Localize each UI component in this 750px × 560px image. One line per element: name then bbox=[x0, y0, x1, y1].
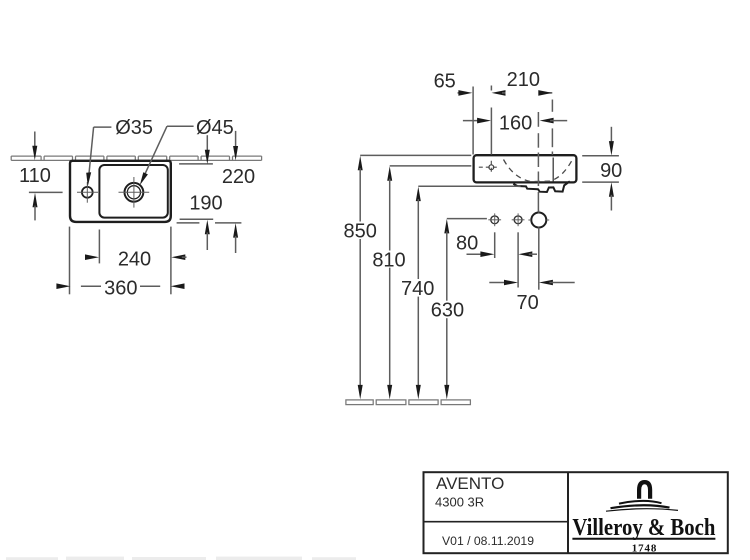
title block vertical divider bbox=[567, 472, 569, 553]
tap hole circle (plan view) bbox=[77, 182, 98, 203]
svg-text:630: 630 bbox=[431, 300, 464, 322]
dimension 110 arrows bbox=[29, 132, 63, 221]
dimension 210 arrows bbox=[492, 90, 553, 96]
dimension 90 reference lines bbox=[582, 156, 619, 182]
svg-text:80: 80 bbox=[456, 232, 478, 254]
extension line tap centre bbox=[490, 86, 492, 155]
svg-text:AVENTO: AVENTO bbox=[436, 474, 504, 493]
svg-text:1748: 1748 bbox=[632, 542, 658, 554]
logo water arcs bbox=[606, 501, 678, 511]
logo underline bbox=[572, 538, 715, 540]
washbasin outer outline (plan view) bbox=[70, 161, 171, 222]
svg-text:220: 220 bbox=[222, 166, 255, 188]
bowl profile dashed (side view) bbox=[504, 160, 573, 182]
dimension 190 arrows bbox=[205, 135, 210, 250]
dimension 360 arrows bbox=[56, 283, 184, 289]
svg-text:240: 240 bbox=[118, 248, 151, 270]
svg-text:Ø45: Ø45 bbox=[196, 117, 234, 139]
svg-text:210: 210 bbox=[507, 69, 540, 91]
dimension 80 arrows bbox=[467, 251, 538, 257]
dimension 65 arrow bbox=[458, 90, 473, 96]
dimension 220 arrows bbox=[233, 131, 238, 253]
fixing hole left bbox=[488, 213, 501, 226]
dimension 740 reference line bbox=[418, 185, 520, 187]
svg-text:90: 90 bbox=[600, 160, 622, 182]
svg-text:65: 65 bbox=[434, 71, 456, 93]
fixing hole right bbox=[512, 213, 525, 226]
extension line basin left edge bbox=[472, 87, 474, 155]
svg-text:850: 850 bbox=[344, 220, 377, 242]
svg-text:810: 810 bbox=[372, 249, 405, 271]
drain fitting outline (side view) bbox=[513, 181, 570, 192]
dimension 70 arrows bbox=[489, 280, 574, 286]
drain hole circle bbox=[528, 210, 549, 229]
dimension 630 line bbox=[444, 219, 449, 400]
dimension 850 line bbox=[358, 156, 363, 400]
drain circle (plan view) bbox=[119, 177, 150, 208]
logo tower icon bbox=[639, 482, 650, 499]
svg-text:360: 360 bbox=[104, 277, 137, 299]
extension line drain centre bbox=[537, 112, 539, 212]
title block frame bbox=[424, 472, 728, 553]
faint cropped print at bottom bbox=[6, 557, 356, 560]
label Ø35 leader bbox=[86, 127, 111, 186]
svg-text:4300 3R: 4300 3R bbox=[435, 495, 484, 510]
dimension 190 reference lines bbox=[179, 164, 213, 219]
dimension 740 line bbox=[416, 187, 421, 400]
dimension 810 reference line bbox=[390, 165, 472, 167]
dimension 160 arrows bbox=[463, 118, 567, 124]
dimension 220 reference lines bbox=[177, 222, 242, 224]
dimension 90 arrows bbox=[609, 127, 614, 211]
dimension 240 arrows bbox=[85, 254, 187, 260]
svg-text:V01 / 08.11.2019: V01 / 08.11.2019 bbox=[442, 534, 534, 548]
dimension 850 reference line bbox=[360, 154, 471, 156]
svg-text:70: 70 bbox=[516, 292, 538, 314]
extension line 210 right bbox=[551, 100, 553, 155]
svg-text:160: 160 bbox=[499, 112, 532, 134]
label Ø45 leader bbox=[140, 126, 194, 185]
dimension 810 line bbox=[387, 166, 392, 399]
dimension 80 extension lines bbox=[495, 232, 518, 287]
extension lines for 240/360 bbox=[70, 227, 171, 295]
svg-text:110: 110 bbox=[19, 165, 51, 187]
overflow line (side view) bbox=[552, 158, 554, 182]
svg-text:Ø35: Ø35 bbox=[115, 117, 153, 139]
wall tile band (plan view) bbox=[11, 156, 261, 160]
dimension 630 reference line bbox=[447, 218, 487, 220]
svg-text:740: 740 bbox=[401, 278, 434, 300]
tap hole mark (side view) bbox=[479, 161, 499, 174]
washbasin outline (side view) bbox=[474, 155, 577, 182]
dimension 70 extension line drain bbox=[538, 228, 540, 290]
svg-text:190: 190 bbox=[189, 192, 222, 214]
svg-text:Villeroy & Boch: Villeroy & Boch bbox=[572, 515, 715, 541]
title block horizontal divider bbox=[424, 521, 569, 523]
floor tile band (side view) bbox=[346, 400, 471, 405]
washbasin inner bowl (plan view) bbox=[99, 165, 167, 218]
